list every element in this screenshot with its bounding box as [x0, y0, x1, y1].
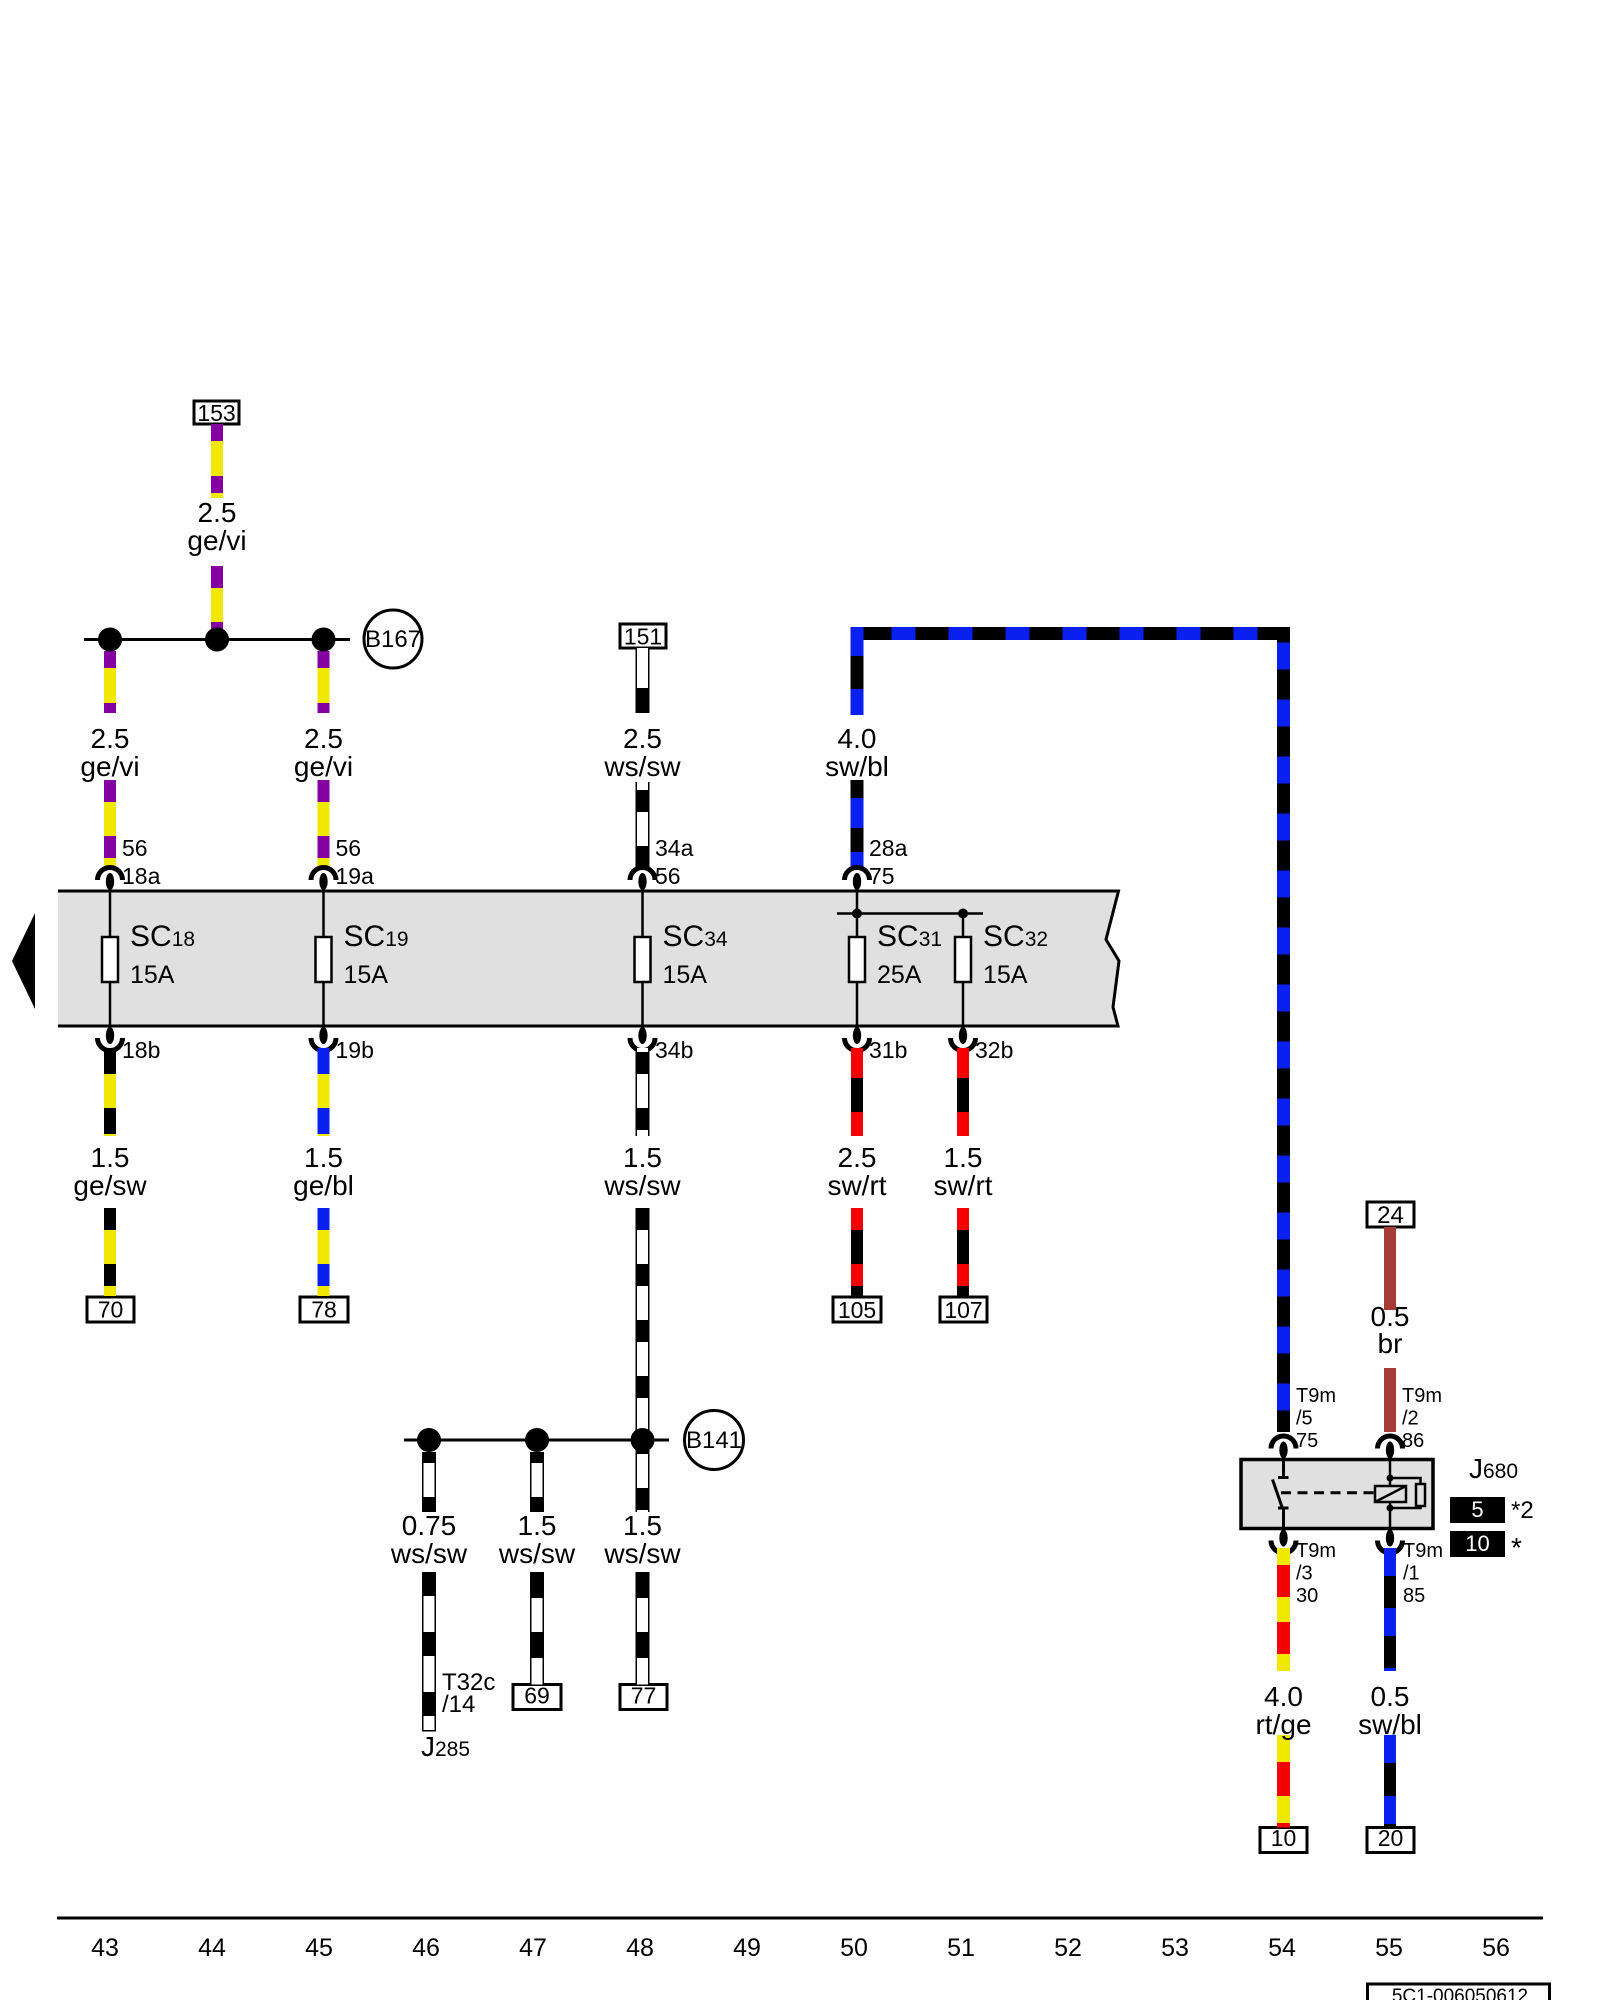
svg-text:53: 53 [1161, 1934, 1189, 1962]
svg-text:4.0: 4.0 [1264, 1681, 1303, 1712]
svg-text:T9m: T9m [1296, 1540, 1336, 1562]
svg-text:18a: 18a [122, 863, 161, 889]
svg-text:50: 50 [840, 1934, 868, 1962]
svg-text:107: 107 [944, 1297, 982, 1323]
svg-text:25A: 25A [877, 961, 922, 989]
svg-text:34a: 34a [655, 835, 694, 861]
svg-text:T9m: T9m [1296, 1385, 1336, 1407]
svg-text:19a: 19a [336, 863, 375, 889]
svg-text:*: * [1511, 1532, 1522, 1563]
svg-text:/1: /1 [1403, 1563, 1420, 1585]
svg-text:46: 46 [412, 1934, 440, 1962]
svg-text:ws/sw: ws/sw [603, 1538, 681, 1569]
svg-text:1.5: 1.5 [304, 1142, 343, 1173]
svg-text:1.5: 1.5 [91, 1142, 130, 1173]
svg-text:4.0: 4.0 [838, 723, 877, 754]
svg-text:2.5: 2.5 [91, 723, 130, 754]
svg-text:ws/sw: ws/sw [390, 1538, 468, 1569]
svg-text:56: 56 [1482, 1934, 1510, 1962]
svg-text:0.75: 0.75 [402, 1510, 457, 1541]
svg-text:T9m: T9m [1403, 1540, 1443, 1562]
svg-text:32b: 32b [975, 1037, 1013, 1063]
svg-text:1.5: 1.5 [518, 1510, 557, 1541]
svg-text:31b: 31b [869, 1037, 907, 1063]
svg-text:2.5: 2.5 [623, 723, 662, 754]
svg-text:30: 30 [1296, 1585, 1318, 1607]
svg-text:15A: 15A [344, 961, 389, 989]
svg-text:2.5: 2.5 [838, 1142, 877, 1173]
svg-text:B141: B141 [686, 1427, 742, 1454]
svg-text:19b: 19b [336, 1037, 374, 1063]
svg-text:69: 69 [524, 1683, 550, 1709]
svg-text:5: 5 [1471, 1497, 1483, 1522]
svg-text:34b: 34b [655, 1037, 693, 1063]
svg-text:153: 153 [197, 400, 235, 426]
svg-text:44: 44 [198, 1934, 226, 1962]
svg-text:2.5: 2.5 [304, 723, 343, 754]
svg-text:105: 105 [838, 1297, 876, 1323]
svg-text:ws/sw: ws/sw [498, 1538, 576, 1569]
svg-text:56: 56 [336, 835, 362, 861]
svg-text:ge/sw: ge/sw [73, 1170, 147, 1201]
svg-text:ge/vi: ge/vi [294, 751, 353, 782]
svg-text:151: 151 [624, 623, 662, 649]
svg-text:5C1-006050612: 5C1-006050612 [1392, 1986, 1528, 2000]
svg-text:78: 78 [311, 1297, 337, 1323]
svg-text:T9m: T9m [1402, 1385, 1442, 1407]
svg-text:J285: J285 [421, 1731, 470, 1762]
svg-text:47: 47 [519, 1934, 547, 1962]
svg-text:15A: 15A [130, 961, 175, 989]
svg-text:48: 48 [626, 1934, 654, 1962]
svg-text:/3: /3 [1296, 1563, 1313, 1585]
svg-text:sw/bl: sw/bl [825, 751, 889, 782]
svg-text:10: 10 [1465, 1531, 1489, 1556]
svg-text:10: 10 [1271, 1825, 1297, 1851]
svg-text:49: 49 [733, 1934, 761, 1962]
svg-text:0.5: 0.5 [1371, 1681, 1410, 1712]
svg-text:B167: B167 [365, 626, 421, 653]
svg-text:1.5: 1.5 [623, 1142, 662, 1173]
svg-text:56: 56 [655, 863, 681, 889]
svg-text:ge/bl: ge/bl [293, 1170, 354, 1201]
svg-text:56: 56 [122, 835, 148, 861]
svg-text:24: 24 [1377, 1202, 1404, 1229]
svg-text:2.5: 2.5 [198, 497, 237, 528]
svg-text:55: 55 [1375, 1934, 1403, 1962]
svg-text:51: 51 [947, 1934, 975, 1962]
svg-text:52: 52 [1054, 1934, 1082, 1962]
svg-text:ws/sw: ws/sw [603, 1170, 681, 1201]
svg-text:85: 85 [1403, 1585, 1425, 1607]
svg-text:ge/vi: ge/vi [187, 525, 246, 556]
svg-text:*2: *2 [1511, 1497, 1534, 1524]
svg-text:15A: 15A [983, 961, 1028, 989]
svg-text:/2: /2 [1402, 1408, 1419, 1430]
svg-text:1.5: 1.5 [623, 1510, 662, 1541]
svg-text:sw/rt: sw/rt [827, 1170, 886, 1201]
svg-text:/14: /14 [442, 1691, 475, 1718]
svg-text:br: br [1378, 1328, 1403, 1359]
svg-text:sw/rt: sw/rt [933, 1170, 992, 1201]
svg-text:70: 70 [98, 1297, 124, 1323]
svg-text:45: 45 [305, 1934, 333, 1962]
svg-text:sw/bl: sw/bl [1358, 1709, 1422, 1740]
svg-text:43: 43 [91, 1934, 119, 1962]
svg-text:75: 75 [869, 863, 895, 889]
svg-text:J680: J680 [1469, 1453, 1518, 1484]
svg-text:28a: 28a [869, 835, 908, 861]
svg-text:15A: 15A [663, 961, 708, 989]
svg-text:/5: /5 [1296, 1408, 1313, 1430]
svg-text:ge/vi: ge/vi [80, 751, 139, 782]
svg-text:77: 77 [631, 1683, 657, 1709]
svg-text:75: 75 [1296, 1430, 1318, 1452]
svg-text:20: 20 [1378, 1825, 1404, 1851]
svg-text:1.5: 1.5 [944, 1142, 983, 1173]
svg-text:18b: 18b [122, 1037, 160, 1063]
svg-text:rt/ge: rt/ge [1255, 1709, 1311, 1740]
svg-text:ws/sw: ws/sw [603, 751, 681, 782]
svg-text:54: 54 [1268, 1934, 1296, 1962]
svg-text:86: 86 [1402, 1430, 1424, 1452]
